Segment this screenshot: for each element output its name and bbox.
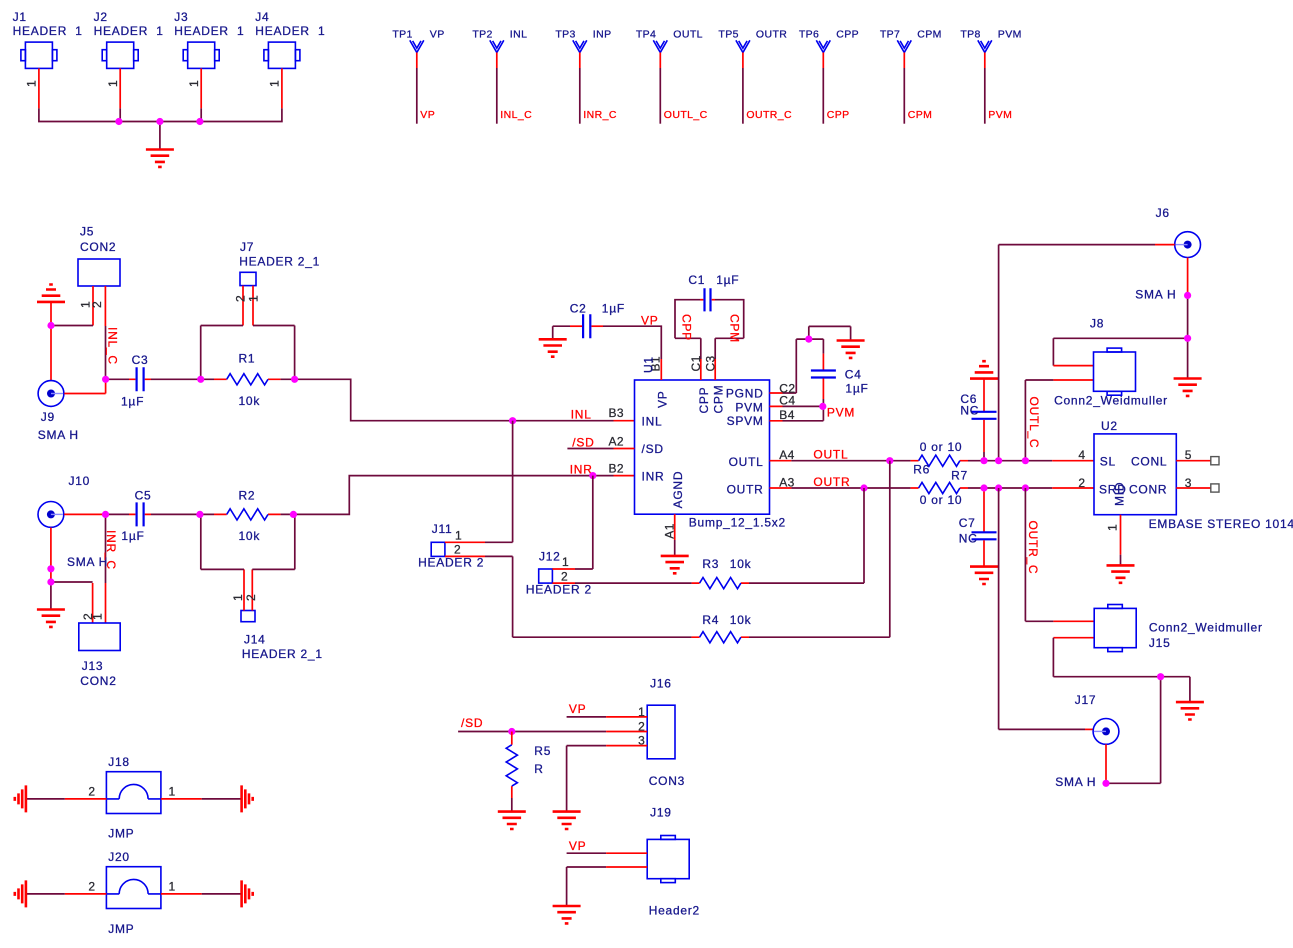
svg-text:2: 2 [1078, 476, 1085, 490]
svg-text:C3: C3 [704, 355, 718, 371]
svg-text:INR_C: INR_C [583, 109, 617, 121]
svg-text:VP: VP [430, 29, 445, 41]
svg-text:SMA H: SMA H [1135, 287, 1176, 301]
svg-text:SMA H: SMA H [1055, 775, 1096, 789]
svg-text:1µF: 1µF [602, 302, 625, 316]
svg-text:INP: INP [593, 29, 612, 41]
svg-text:5: 5 [1185, 448, 1192, 462]
svg-text:TP3: TP3 [555, 29, 575, 41]
svg-text:HEADER 1: HEADER 1 [13, 24, 83, 38]
svg-text:Conn2_Weidmuller: Conn2_Weidmuller [1149, 621, 1263, 635]
svg-text:B4: B4 [779, 408, 794, 422]
svg-text:1: 1 [638, 705, 645, 719]
svg-text:VP: VP [641, 314, 659, 328]
svg-text:OUTL: OUTL [729, 455, 764, 469]
svg-text:INL_C: INL_C [500, 109, 532, 121]
svg-text:/SD: /SD [642, 442, 664, 456]
svg-text:10k: 10k [730, 613, 752, 627]
svg-text:CON2: CON2 [80, 674, 116, 688]
svg-text:INL_C: INL_C [106, 327, 120, 365]
svg-text:A2: A2 [609, 434, 624, 448]
svg-text:OUTL: OUTL [813, 448, 848, 462]
svg-text:J5: J5 [80, 225, 94, 239]
svg-text:INL: INL [571, 407, 592, 421]
svg-text:CPM: CPM [908, 109, 933, 121]
svg-text:VP: VP [569, 839, 587, 853]
svg-text:1µF: 1µF [845, 381, 868, 395]
svg-text:2: 2 [244, 594, 258, 601]
svg-text:A1: A1 [663, 523, 677, 538]
svg-text:0 or 10: 0 or 10 [920, 440, 963, 454]
svg-text:2: 2 [638, 720, 645, 734]
svg-text:PVM: PVM [998, 29, 1022, 41]
svg-text:CONL: CONL [1131, 454, 1167, 468]
svg-text:SMA H: SMA H [67, 555, 108, 569]
svg-text:PVM: PVM [735, 400, 763, 414]
svg-text:CPM: CPM [712, 385, 726, 414]
svg-text:0 or 10: 0 or 10 [920, 493, 963, 507]
svg-text:3: 3 [1185, 476, 1192, 490]
svg-text:TP6: TP6 [799, 29, 819, 41]
svg-text:INR: INR [570, 463, 593, 477]
svg-text:J12: J12 [539, 550, 561, 564]
svg-text:R7: R7 [951, 469, 968, 483]
svg-text:R2: R2 [239, 489, 256, 503]
svg-text:SPVM: SPVM [727, 414, 764, 428]
svg-text:CPP: CPP [836, 29, 859, 41]
svg-text:2: 2 [561, 569, 568, 583]
svg-text:J20: J20 [108, 850, 130, 864]
svg-text:VP: VP [656, 390, 670, 408]
svg-text:AGND: AGND [671, 471, 685, 509]
svg-text:CPP: CPP [680, 314, 694, 341]
svg-text:1: 1 [562, 555, 569, 569]
svg-text:HEADER 1: HEADER 1 [94, 24, 164, 38]
svg-text:2: 2 [90, 301, 104, 308]
svg-text:1: 1 [91, 613, 105, 620]
svg-text:1: 1 [25, 80, 39, 87]
svg-text:NC: NC [960, 403, 979, 417]
svg-text:C2: C2 [570, 302, 587, 316]
svg-text:1: 1 [1106, 524, 1120, 531]
svg-text:TP5: TP5 [718, 29, 738, 41]
svg-text:C5: C5 [135, 489, 152, 503]
svg-text:U1: U1 [642, 356, 656, 373]
svg-text:OUTR_C: OUTR_C [746, 109, 792, 121]
svg-text:HEADER 2_1: HEADER 2_1 [239, 254, 320, 268]
svg-text:OUTR: OUTR [727, 482, 764, 496]
svg-text:R3: R3 [702, 557, 719, 571]
svg-text:B3: B3 [609, 406, 624, 420]
svg-text:3: 3 [638, 733, 645, 747]
svg-text:J6: J6 [1156, 206, 1170, 220]
svg-text:J10: J10 [69, 474, 91, 488]
svg-text:CPP: CPP [697, 387, 711, 414]
svg-text:C3: C3 [132, 353, 149, 367]
svg-text:2: 2 [88, 880, 95, 894]
svg-text:HEADER 2_1: HEADER 2_1 [242, 647, 323, 661]
svg-text:J15: J15 [1149, 636, 1171, 650]
svg-text:TP2: TP2 [472, 29, 492, 41]
svg-text:10k: 10k [730, 557, 752, 571]
svg-text:R1: R1 [239, 352, 256, 366]
svg-text:J7: J7 [240, 240, 254, 254]
svg-text:C1: C1 [689, 355, 703, 371]
svg-text:INR_C: INR_C [104, 530, 118, 570]
svg-text:J3: J3 [174, 10, 188, 24]
svg-text:TP1: TP1 [392, 29, 412, 41]
svg-text:HEADER 1: HEADER 1 [174, 24, 244, 38]
svg-text:CON2: CON2 [80, 240, 116, 254]
svg-text:1: 1 [247, 295, 261, 302]
svg-text:1: 1 [187, 80, 201, 87]
svg-text:R: R [534, 762, 543, 776]
svg-text:1µF: 1µF [121, 395, 144, 409]
svg-text:Conn2_Weidmuller: Conn2_Weidmuller [1054, 393, 1168, 407]
svg-text:TP4: TP4 [636, 29, 656, 41]
svg-text:R4: R4 [702, 613, 719, 627]
svg-text:NC: NC [959, 532, 978, 546]
svg-text:10k: 10k [239, 394, 261, 408]
svg-text:OUTL: OUTL [673, 29, 703, 41]
svg-text:EMBASE STEREO 1014: EMBASE STEREO 1014 [1149, 517, 1293, 531]
svg-text:PVM: PVM [988, 109, 1012, 121]
svg-text:J11: J11 [432, 522, 453, 536]
svg-text:R6: R6 [913, 463, 930, 477]
svg-text:1µF: 1µF [716, 273, 739, 287]
svg-text:CONR: CONR [1129, 482, 1167, 496]
svg-text:CPM: CPM [728, 314, 742, 343]
svg-text:J8: J8 [1090, 316, 1104, 330]
svg-text:C4: C4 [779, 394, 795, 408]
svg-text:OUTR_C: OUTR_C [1026, 521, 1040, 575]
svg-text:J14: J14 [244, 633, 266, 647]
svg-text:HEADER 1: HEADER 1 [255, 24, 325, 38]
svg-text:INR: INR [642, 470, 665, 484]
svg-text:/SD: /SD [572, 435, 594, 449]
svg-text:MID: MID [1113, 482, 1127, 506]
svg-text:J13: J13 [82, 659, 104, 673]
svg-text:TP7: TP7 [880, 29, 900, 41]
svg-text:OUTR: OUTR [756, 29, 787, 41]
svg-text:JMP: JMP [108, 827, 134, 841]
svg-text:Header2: Header2 [649, 904, 700, 918]
svg-text:J16: J16 [650, 676, 672, 690]
svg-text:JMP: JMP [108, 922, 134, 936]
svg-text:1: 1 [106, 80, 120, 87]
svg-text:/SD: /SD [461, 716, 483, 730]
svg-text:OUTL_C: OUTL_C [664, 109, 708, 121]
svg-text:1: 1 [231, 594, 245, 601]
svg-text:C7: C7 [959, 516, 976, 530]
svg-text:J19: J19 [650, 805, 672, 819]
svg-text:U2: U2 [1101, 419, 1118, 433]
svg-text:C4: C4 [845, 368, 862, 382]
svg-text:CPM: CPM [917, 29, 942, 41]
svg-text:1µF: 1µF [121, 529, 144, 543]
svg-text:C1: C1 [688, 273, 705, 287]
svg-text:HEADER 2: HEADER 2 [418, 556, 484, 570]
svg-text:CON3: CON3 [649, 774, 685, 788]
svg-text:HEADER 2: HEADER 2 [526, 583, 592, 597]
svg-text:1: 1 [169, 785, 176, 799]
svg-text:OUTR: OUTR [813, 475, 850, 489]
svg-text:SL: SL [1100, 454, 1116, 468]
svg-text:PGND: PGND [726, 386, 764, 400]
svg-text:B2: B2 [609, 461, 624, 475]
svg-text:INL: INL [510, 29, 528, 41]
svg-text:1: 1 [455, 528, 462, 542]
svg-text:J9: J9 [41, 410, 55, 424]
svg-text:VP: VP [420, 109, 435, 121]
svg-text:J2: J2 [94, 10, 108, 24]
svg-text:J17: J17 [1075, 693, 1097, 707]
svg-text:2: 2 [454, 543, 461, 557]
svg-text:2: 2 [234, 295, 248, 302]
svg-text:J18: J18 [108, 755, 130, 769]
svg-text:J1: J1 [13, 10, 27, 24]
svg-text:R5: R5 [534, 744, 551, 758]
svg-text:1: 1 [268, 80, 282, 87]
svg-text:10k: 10k [239, 529, 261, 543]
svg-text:4: 4 [1078, 448, 1085, 462]
svg-text:OUTL_C: OUTL_C [1027, 397, 1041, 449]
svg-text:1: 1 [169, 880, 176, 894]
svg-text:SMA H: SMA H [38, 428, 79, 442]
svg-text:TP8: TP8 [960, 29, 980, 41]
svg-text:CPP: CPP [827, 109, 850, 121]
svg-text:PVM: PVM [827, 406, 855, 420]
svg-text:INL: INL [642, 414, 663, 428]
svg-text:Bump_12_1.5x2: Bump_12_1.5x2 [689, 516, 786, 530]
svg-text:J4: J4 [255, 10, 269, 24]
svg-text:2: 2 [88, 785, 95, 799]
svg-text:VP: VP [569, 702, 587, 716]
